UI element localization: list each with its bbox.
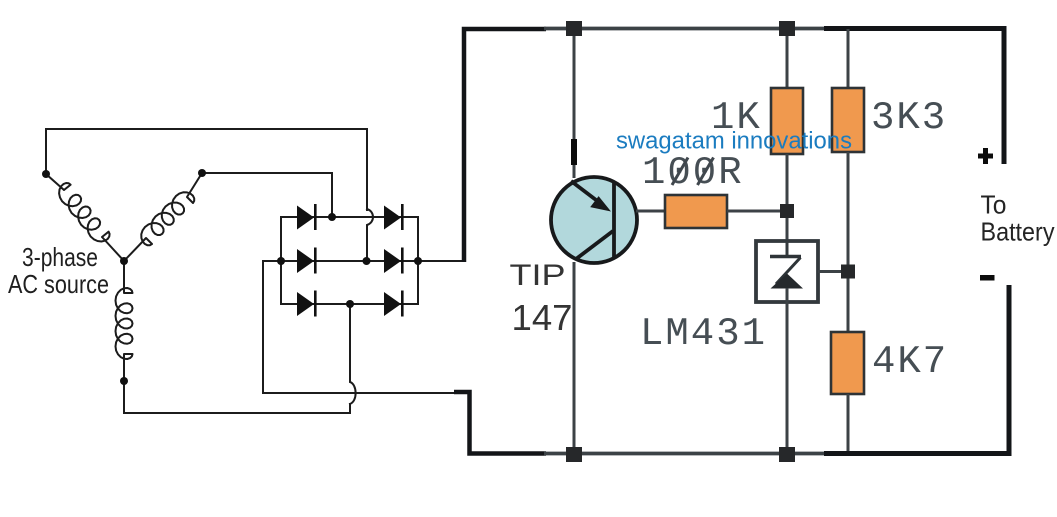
- diode D4: [384, 248, 404, 274]
- svg-text:100R: 100R: [642, 151, 744, 195]
- wire: collector lead from top rail: [573, 29, 576, 178]
- diode D6: [384, 291, 404, 317]
- battery plus sign: [978, 154, 993, 159]
- wire phase3 bottom: to bridge bottom feed: [124, 381, 350, 413]
- wire: R 100R to junction: [727, 210, 787, 213]
- inductor winding W1: [46, 174, 124, 261]
- U1 anode triangle: [771, 274, 804, 289]
- inductor winding W3: [116, 261, 133, 381]
- node: bridge row1 junction: [328, 213, 336, 221]
- U1 zener Z diagonal: [776, 258, 801, 285]
- wire bridge row3: [281, 303, 418, 305]
- svg-text:To: To: [981, 190, 1007, 220]
- node: bridge row3 junction: [346, 300, 354, 308]
- wire bridge row2 (positive output to regulator): [263, 260, 462, 262]
- wire: junction to U1 cathode: [786, 218, 789, 242]
- U1 zener cathode bar: [770, 255, 801, 259]
- node: bridge row2 right rail: [414, 257, 422, 265]
- junction square: base node: [780, 204, 794, 218]
- inductor winding W2: [124, 173, 202, 261]
- wire: top rail thin middle: [544, 27, 826, 31]
- wire phase2: node to bridge row1 feed: [202, 173, 332, 217]
- svg-text:AC source: AC source: [8, 269, 109, 299]
- battery minus sign: [980, 275, 995, 281]
- node: bridge row2 junction: [363, 257, 371, 265]
- U1 reference lead: [818, 270, 841, 273]
- transistor Q1 base bar: [612, 183, 616, 257]
- diode D1: [297, 204, 317, 230]
- transistor Q1 body: [551, 177, 637, 263]
- junction square: reference node: [841, 265, 855, 279]
- resistor R4 4K7 body: [831, 332, 864, 394]
- wire bridge right rail: [417, 217, 419, 304]
- svg-text:LM431: LM431: [640, 312, 767, 356]
- wire: emitter lead to bottom rail: [573, 262, 576, 447]
- junction square: top rail collector: [566, 21, 582, 36]
- resistor R3 3K3 body: [832, 88, 864, 152]
- wire: top rail thick right + drop to battery plus: [824, 29, 1004, 165]
- diode D5: [297, 291, 317, 317]
- junction square: bottom rail LM431 anode: [779, 447, 795, 462]
- svg-text:Battery: Battery: [981, 217, 1055, 247]
- transistor Q1 emitter arrow: [590, 196, 611, 211]
- node: bridge row2 left rail: [277, 257, 285, 265]
- wire: base lead to R 100R: [636, 210, 665, 213]
- node: phase3 lower: [120, 377, 128, 385]
- diode D3: [297, 248, 317, 274]
- wire phase1 top: node to bridge feed: [46, 129, 367, 210]
- wire: thick positive riser (bridge to top rail): [464, 29, 546, 262]
- diode D2: [384, 204, 404, 230]
- wire hop: phase3 feed over negative rail: [350, 304, 356, 404]
- wire: R 1K bottom lead: [786, 154, 789, 211]
- svg-text:TIP: TIP: [510, 259, 566, 292]
- wire: bottom rail thick right + riser to battery minus: [824, 285, 1009, 454]
- U1 cathode lead inside: [786, 241, 789, 257]
- resistor R1 100R body: [665, 195, 727, 228]
- transistor Q1 collector stroke: [576, 231, 613, 259]
- wire bridge left rail: [280, 217, 282, 304]
- collector bold mark: [571, 139, 577, 165]
- svg-text:4K7: 4K7: [872, 340, 948, 384]
- svg-text:3K3: 3K3: [871, 96, 947, 140]
- U1 anode lead to bottom rail: [786, 288, 789, 447]
- node: star center: [120, 257, 128, 265]
- resistor R2 1K body: [771, 88, 803, 154]
- junction square: bottom rail emitter: [566, 447, 582, 462]
- wire hop: phase1 over row1: [367, 209, 373, 261]
- shunt regulator U1 LM431 box: [756, 241, 818, 302]
- node B: phase2 terminal: [198, 169, 206, 177]
- wire: divider line 3K3 to 4K7: [847, 152, 850, 332]
- node A: phase1 terminal: [42, 170, 50, 178]
- wire: bottom rail thin middle: [544, 452, 826, 456]
- wire: thick negative step from bridge: [454, 392, 546, 454]
- wire: R 1K top lead: [786, 29, 789, 88]
- junction square: top rail 1K: [779, 21, 795, 36]
- svg-text:3-phase: 3-phase: [22, 242, 98, 272]
- wire: R 4K7 bottom lead: [847, 394, 850, 451]
- wire negative output: left drop and run to regulator: [263, 261, 454, 393]
- svg-text:swagatam innovations: swagatam innovations: [616, 128, 852, 155]
- wire: R 3K3 top lead: [847, 29, 850, 88]
- transistor Q1 emitter stroke: [571, 181, 600, 203]
- svg-text:147: 147: [512, 297, 573, 338]
- wire bridge row1: [281, 216, 418, 218]
